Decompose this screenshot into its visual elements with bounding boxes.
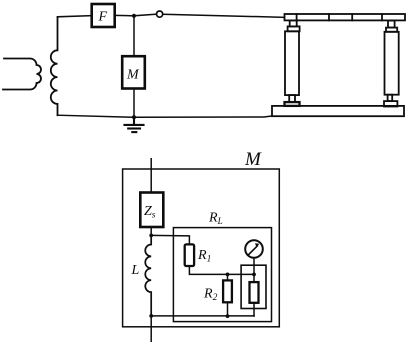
test rig base platform — [272, 106, 404, 116]
box M — [122, 56, 145, 88]
node junction bottom of L — [149, 314, 153, 318]
wire terminal to test rig top bar — [163, 14, 285, 17]
insulator column right — [384, 21, 399, 107]
insulator column left — [285, 20, 300, 106]
wire stub below detail box — [150, 316, 152, 341]
svg-text:F: F — [98, 10, 108, 25]
node dot R2 top — [226, 273, 230, 277]
svg-text:RL: RL — [208, 211, 223, 227]
node dot R2 bottom — [226, 314, 230, 318]
wire junction down to M — [133, 16, 135, 56]
node dot shunt top — [252, 273, 256, 277]
wire R2 leads — [227, 274, 229, 316]
box F — [92, 4, 115, 27]
meter needle — [249, 246, 258, 255]
node junction dot (F / M tap) — [132, 14, 136, 18]
wire F to junction — [115, 14, 134, 16]
node junction below Zs — [149, 234, 153, 238]
wire meter to shunt — [253, 258, 255, 282]
outer box M (detail) — [123, 169, 280, 327]
impedance Zs — [140, 193, 163, 228]
svg-text:Zs: Zs — [144, 204, 156, 221]
node open terminal — [157, 11, 163, 17]
wire node to R1 — [151, 235, 189, 244]
test rig top bar — [285, 14, 406, 20]
resistor R1 — [185, 244, 194, 266]
wire M to bottom rail — [133, 89, 135, 118]
shunt enclosure box — [241, 265, 266, 308]
svg-text:R1: R1 — [197, 248, 211, 265]
resistor R3 shunt — [250, 282, 259, 303]
wire junction to open terminal — [134, 14, 156, 16]
svg-text:R2: R2 — [203, 287, 218, 304]
ground — [125, 117, 144, 132]
svg-text:M: M — [126, 68, 140, 83]
transformer T1 secondary winding — [51, 17, 58, 115]
wire bottom bus of detail — [151, 315, 254, 317]
inner box RL — [173, 228, 271, 322]
wire secondary top to F — [58, 16, 92, 17]
svg-text:L: L — [131, 263, 140, 278]
wire R1 bottom to middle bus — [189, 266, 254, 274]
wire shunt bottom lead — [253, 303, 255, 316]
meter A — [245, 240, 263, 258]
svg-text:M: M — [244, 149, 262, 170]
transformer T1 primary winding — [3, 59, 41, 90]
inductor L — [145, 235, 151, 316]
wire bottom rail — [58, 115, 273, 117]
node ground junction dot — [132, 115, 136, 119]
wire stub into detail box — [150, 159, 152, 193]
wire Zs to node — [150, 227, 152, 235]
resistor R2 — [223, 280, 232, 302]
